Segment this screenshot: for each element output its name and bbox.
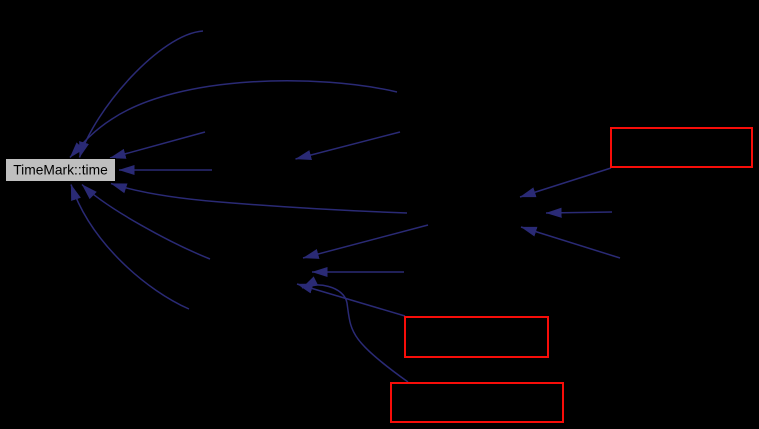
edge H1 into hidden node NE <box>296 132 401 159</box>
edge G3 from red box R2 corner into hidden node NB <box>297 284 405 316</box>
edge E2 long arc from right into box top <box>70 81 397 158</box>
edge E3 short line into box top-right corner <box>110 132 205 158</box>
red node R1 <box>611 128 752 167</box>
edge curveB into box bottom <box>71 185 189 310</box>
edge F3 into hidden node NA <box>521 227 620 258</box>
edge F1 from red box R1 corner into hidden node NA <box>520 168 611 197</box>
edge G2 horizontal into hidden node NB <box>312 271 404 273</box>
node TimeMark::time <box>6 159 116 182</box>
edge G1 into hidden node NB <box>303 225 428 258</box>
edge E1 top curve into box <box>80 31 204 158</box>
edge E4 horizontal into box right edge <box>119 169 212 171</box>
red node R3 <box>391 383 563 422</box>
edge E5 long shallow curve into box bottom-right corner <box>111 184 407 214</box>
edge F2 horizontal into hidden node NA <box>546 212 612 213</box>
edge curveA into box bottom <box>82 185 210 260</box>
edge G4 S-curve from red box R3 into hidden node NB <box>302 285 408 382</box>
svg-text:TimeMark::time: TimeMark::time <box>13 163 108 178</box>
red node R2 <box>405 317 548 357</box>
